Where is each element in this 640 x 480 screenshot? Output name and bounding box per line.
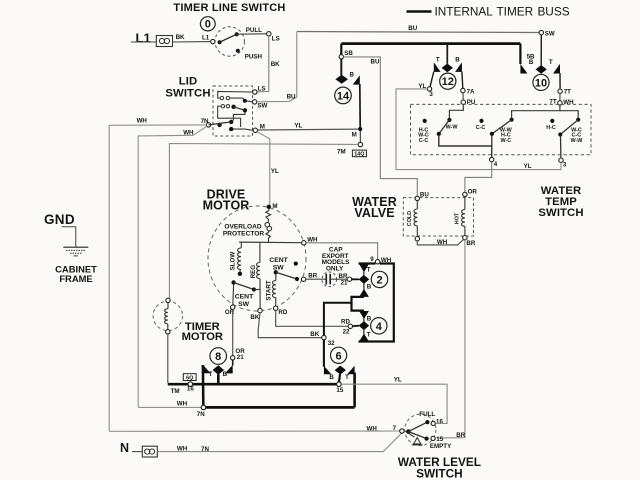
contact 4 flag B [359,311,369,319]
wire motor header [239,241,302,244]
circled 4 [371,318,387,334]
boxed label 6Q [183,374,196,382]
wire YL from 15 to water level 16 [341,384,447,423]
water level pivot [406,429,411,434]
fuse L1 connector [156,36,172,47]
contact 6 flag B [324,366,331,374]
svg-text:WH: WH [563,99,574,106]
svg-text:CENT: CENT [235,293,254,300]
terminal 7M [358,142,362,146]
svg-text:C-C: C-C [419,138,429,144]
cent sw lower contact dot [252,287,256,291]
terminal COLD bottom [415,237,419,241]
svg-text:SW: SW [257,103,267,110]
terminal OR motor [231,305,235,309]
svg-text:LS: LS [258,85,266,92]
blade to EMPTY [408,432,426,439]
terminal 15 [337,382,342,387]
svg-text:BK: BK [250,314,259,321]
timer motor circle [153,301,182,330]
terminal PU [461,100,465,104]
svg-text:N: N [120,441,129,455]
circled 12 [440,73,456,89]
svg-text:7N: 7N [201,446,209,453]
svg-text:M: M [352,132,357,139]
wire WH motor to cap box terminal 9 [306,243,378,260]
svg-text:T: T [209,371,213,378]
terminal 7N bottom [201,405,206,410]
contact 8 diamond [213,365,224,374]
contact 6 diamond [335,366,346,375]
terminal SW top [539,30,543,34]
svg-text:WH: WH [137,117,148,124]
svg-text:14: 14 [337,90,350,102]
wire step B2 to B4 [352,297,364,311]
wire lid SW up to top BU line [257,32,297,102]
wire WH gray segment to 7N [138,406,201,408]
wire BR down to water level switch [437,240,465,438]
svg-text:L1: L1 [136,31,151,46]
svg-text:REG: REG [250,265,257,279]
blade to FULL [408,422,427,432]
lid switch contact dots [243,99,247,103]
cent sw upper free dot [294,262,298,266]
svg-text:INTERNAL TIMER BUSS: INTERNAL TIMER BUSS [435,4,570,18]
wire OR21 to flag B8 [232,360,234,366]
svg-text:7M: 7M [337,148,346,155]
svg-text:RD: RD [278,309,287,316]
terminal SW lid [252,100,256,104]
svg-text:MOTOR: MOTOR [182,331,223,343]
contact 14 diamond [335,75,348,84]
lid switch 7N blade [209,122,232,125]
terminal LS [267,32,271,36]
temp switch blade 3 [560,120,578,135]
svg-text:HOT: HOT [454,212,460,224]
contact 10 flag B [520,64,527,74]
terminal SB [339,55,343,59]
terminal 9 WH [375,260,379,264]
svg-text:WH: WH [183,129,194,136]
contact 12 flag B [455,62,462,72]
svg-text:SWITCH: SWITCH [416,466,463,480]
wire bus end down to flag B 10 [519,44,521,64]
wire M junction to 7M [359,131,361,142]
wire pivot 2 down [491,135,493,146]
svg-text:LID: LID [179,76,198,88]
terminal OR 21 [231,356,235,360]
wire 7 to pivot [404,430,407,432]
svg-text:B: B [455,57,460,64]
svg-text:T: T [367,332,371,339]
svg-text:WH: WH [177,446,188,453]
wire SB to diamond 14 [340,59,342,75]
svg-text:W-W: W-W [570,138,583,144]
SLOW winding [238,242,242,272]
timer motor bottom terminal [166,330,170,334]
capacitor plates [325,274,327,285]
contact 4 flag T [359,334,369,342]
svg-text:10: 10 [535,77,547,89]
wire N line to water level switch [157,433,401,452]
wire YL junction left and down [396,89,427,170]
wire WH line upper from lid 7N to left frame [109,125,206,431]
contact PUSH dot [236,49,240,53]
wire flag to diamond 2 [363,271,365,275]
legend INTERNAL TIMER BUSS [407,4,570,18]
cent sw upper blade [276,272,297,279]
lid switch internal wiring [218,91,253,130]
fuse N connector [142,446,157,457]
circled 10 [533,74,549,90]
wire BK to L1 terminal [173,41,211,43]
svg-text:9: 9 [370,256,374,263]
svg-text:16: 16 [187,386,194,393]
svg-text:7: 7 [393,425,397,432]
terminal 7N lid [206,123,210,127]
contact 2 flag T [359,264,369,272]
svg-text:EMPTY: EMPTY [430,443,452,450]
water level switch dashed circle [405,414,436,445]
wire terminal 4 to OR valve [465,162,492,192]
svg-text:SWITCH: SWITCH [538,207,583,219]
svg-text:32: 32 [328,340,335,347]
terminal 7T [558,89,562,93]
wire BK down to lid switch LS [257,36,269,92]
svg-text:7T: 7T [564,89,571,96]
svg-text:12: 12 [442,76,454,88]
svg-text:L1: L1 [202,35,210,42]
wire pivot down to OR [232,285,235,305]
svg-text:MOTOR: MOTOR [203,199,250,213]
terminal BR 21 [347,277,351,281]
svg-text:21: 21 [237,354,244,361]
wire step tap to 32 junction [324,303,352,336]
svg-text:RD: RD [341,318,350,325]
terminal BU valve [415,196,419,200]
svg-text:COLD: COLD [407,211,413,226]
wire BK motor down and right to 32 junction [258,313,322,338]
air dome funnel [409,434,422,445]
circled 0 [200,17,215,31]
terminal M lid [253,128,257,132]
terminal HOT bottom [463,236,467,240]
svg-text:7N: 7N [197,411,205,418]
svg-text:WH: WH [437,239,448,246]
svg-text:VALVE: VALVE [354,206,394,220]
svg-text:6: 6 [336,350,342,362]
COLD solenoid coil [414,201,417,237]
svg-text:YL: YL [294,122,302,129]
wire L1 lead [131,41,156,43]
thick line 7N to T6 [206,406,355,409]
svg-text:8: 8 [215,351,221,363]
wire valve commons WH [417,240,463,245]
svg-text:CENT: CENT [269,257,288,264]
svg-text:YL: YL [271,168,279,175]
wire RD motor to 22 [276,310,348,326]
svg-text:TM: TM [171,388,180,395]
terminal RD 22 [348,324,352,328]
terminal BK motor [258,308,262,312]
wire 7T WH into temp switch header [512,105,560,118]
svg-text:B: B [529,59,534,66]
terminal OR valve [463,192,467,196]
contact 2 diamond [359,275,370,284]
terminal YL 3 junction [427,87,431,91]
wire M to YL junction [258,128,359,131]
junction M dot [358,127,362,131]
svg-text:START: START [266,280,273,300]
cent sw upper pivot [274,270,278,274]
wire PULL to LS [237,33,267,35]
svg-text:T: T [367,266,371,273]
contact 2 flag B [359,289,369,297]
svg-text:T: T [436,57,440,64]
svg-text:SW: SW [238,301,250,308]
svg-text:OR: OR [468,189,478,196]
wire capacitor to BR 21 [330,278,347,280]
terminal 16 [188,382,193,387]
wire lid M diagonal to drive motor M [257,132,270,205]
wire pivot 3 to terminal 3 [560,136,562,158]
timer motor coil [165,303,168,330]
contact 12 diamond [442,64,453,73]
svg-text:W-C: W-C [500,138,511,144]
svg-text:22: 22 [343,329,350,336]
circled 14 [335,87,352,104]
wire timer motor to thick line [167,334,169,383]
wire WH line lower [138,126,207,407]
svg-text:BU: BU [420,191,429,198]
wire 7T down to temp switch [559,93,561,100]
wire pivot1 to terminal 4 [439,135,492,157]
temp switch free dot 3 [550,119,554,123]
circled 2 [371,271,387,287]
temp switch pivot 3 [558,132,562,136]
svg-text:BK: BK [271,61,280,68]
temp switch pivot 1 [437,132,441,136]
svg-text:SW: SW [545,31,555,38]
REG winding [257,242,261,308]
terminal M motor [267,205,271,209]
temp switch blade 2 [492,120,512,134]
contact 10 flag T [553,64,560,74]
switch blade L1-PULL [218,32,239,44]
svg-text:WH: WH [177,400,188,407]
svg-text:FULL: FULL [419,411,435,418]
svg-text:14Q: 14Q [354,152,364,158]
wire 21 to diamond 2 [352,278,359,280]
svg-text:GND: GND [44,212,75,227]
svg-text:4: 4 [376,321,383,333]
overload protector [265,209,272,242]
contact FULL dot [425,420,429,424]
svg-text:15: 15 [436,436,443,443]
wire SB to BU valve feed [344,57,418,196]
svg-text:TIMER LINE SWITCH: TIMER LINE SWITCH [173,2,285,14]
cap box thick outline [359,262,376,264]
contact 4 diamond [359,321,370,330]
svg-text:SW: SW [273,265,285,272]
wire PU into temp switch [449,104,463,117]
circled 8 [210,348,227,365]
svg-text:PROTECTOR: PROTECTOR [223,231,265,238]
timer line switch dashed circle [215,27,244,56]
svg-text:BK: BK [176,34,185,41]
svg-text:SB: SB [344,50,353,57]
water temp switch dashed box [411,104,592,154]
wire bus drop to SB [340,44,342,55]
svg-text:PULL: PULL [246,27,262,34]
contact 10 diamond [536,65,547,74]
temp switch blade 1 [439,120,450,134]
wire bus drop to diamond 12 [446,44,448,64]
junction 32 [322,335,326,339]
svg-text:YL: YL [524,163,532,170]
wire top BU line [297,32,539,33]
wire BR motor to capacitor [306,278,326,280]
temp switch contact dot W-W [447,118,451,122]
terminal BR motor [301,277,305,281]
wire diamond 4 to flag T4 [363,330,365,335]
svg-text:ONLY: ONLY [326,265,344,272]
terminal 7 [400,429,404,433]
svg-text:B: B [350,71,355,78]
circled 6 [331,347,347,363]
temp switch contact dot 3 [576,118,580,122]
svg-text:YL: YL [394,377,402,384]
wire 32 down to flag B6 [323,340,325,367]
wire diamond 8 to line [217,374,220,384]
wire flag T down to 7T [559,73,561,89]
svg-text:T: T [549,59,553,66]
wire internal timer buss thick [341,42,520,45]
wire diamond 6 to 15 [339,374,340,382]
lid switch contact circles [220,96,223,99]
wire 7A to PU [462,93,464,100]
contact 12 flag T [434,62,441,72]
terminal LS lid [253,90,257,94]
cent sw lower blade [234,283,254,290]
svg-text:16: 16 [436,418,443,425]
cent sw lower pivot [231,280,235,284]
svg-text:B: B [329,374,334,381]
wire OR motor down to 21 [232,309,234,355]
wire SW down to diamond 10 [540,35,542,65]
svg-text:4: 4 [494,161,498,168]
svg-text:2: 2 [376,274,382,286]
wire diamond 2 to flag B [363,284,365,291]
svg-text:SLOW: SLOW [229,252,236,271]
svg-text:SWITCH: SWITCH [165,88,210,100]
wire flag B4 to diamond 4 [363,318,365,322]
wire N lead [132,451,142,453]
svg-text:PUSH: PUSH [245,54,263,61]
svg-text:M: M [272,203,277,210]
svg-text:C-C: C-C [476,125,486,131]
svg-text:BR: BR [466,240,475,247]
contact 14 flag [353,75,360,84]
svg-text:7A: 7A [467,88,475,95]
terminal 15 water level [431,436,435,440]
svg-text:B: B [367,315,372,322]
svg-text:BU: BU [287,94,296,101]
wire flag 14 down to M junction [359,84,361,127]
lid switch dashed box [213,86,253,136]
svg-text:0: 0 [205,19,211,31]
svg-text:7N: 7N [201,118,209,125]
wire 7M line to left frame and down to timer motor [169,144,358,299]
svg-text:W-W: W-W [446,125,459,131]
svg-text:15: 15 [336,387,343,394]
temp switch free dot 1 [423,119,427,123]
wire 22 to diamond 4 [353,325,360,327]
ground GND symbol [44,212,88,256]
contact 8 flag T [203,365,211,373]
cent sw upper contact dot [295,277,299,281]
terminal L1 [211,39,215,43]
temp switch contact dot 2 [510,118,514,122]
contact 6 flag T [347,366,354,374]
wire YL under temp switch [396,162,561,169]
contact EMPTY dot [425,437,429,441]
terminal RD motor [274,306,278,310]
timer motor top terminal [166,298,170,302]
boxed label 14Q [352,150,366,157]
terminal 7T WH [558,101,562,105]
svg-text:BK: BK [310,331,319,338]
temp switch pivot 2 [490,132,494,136]
svg-text:H-C: H-C [546,125,556,131]
capacitor C dashed circle [322,272,337,287]
thick line TM-15 [168,383,339,386]
terminal 3 [559,158,563,162]
temp switch free dot 2 [479,119,483,123]
svg-text:B: B [367,284,372,291]
terminal 4 [490,157,494,161]
contact 8 flag B [225,365,233,374]
svg-text:6Q: 6Q [186,375,193,381]
wire flag T8 down to 7N [202,365,205,405]
wire contact to REG line [254,289,260,291]
svg-text:LS: LS [272,35,280,42]
terminal WH motor [302,241,306,245]
svg-text:WH: WH [367,426,378,433]
svg-text:BU: BU [371,58,380,65]
SLOW winding end dot [238,272,242,276]
terminal 7A [461,88,465,92]
terminal 16 water level [431,421,435,425]
wire flag T down to YL junction 3 [430,72,434,87]
svg-text:BR: BR [456,432,465,439]
svg-text:BU: BU [408,25,417,32]
svg-text:FRAME: FRAME [59,273,92,284]
wire flag B down to 7A [461,72,464,89]
svg-text:3: 3 [563,161,567,168]
svg-text:3: 3 [429,91,433,98]
svg-text:T: T [345,374,349,381]
HOT solenoid coil [462,197,465,236]
wire WH line to water level 7 [109,430,400,432]
wire flag T6 down to WH line [353,373,356,408]
START winding [273,275,276,307]
drive motor dashed ellipse [208,206,306,311]
water valve dashed box [403,198,473,236]
